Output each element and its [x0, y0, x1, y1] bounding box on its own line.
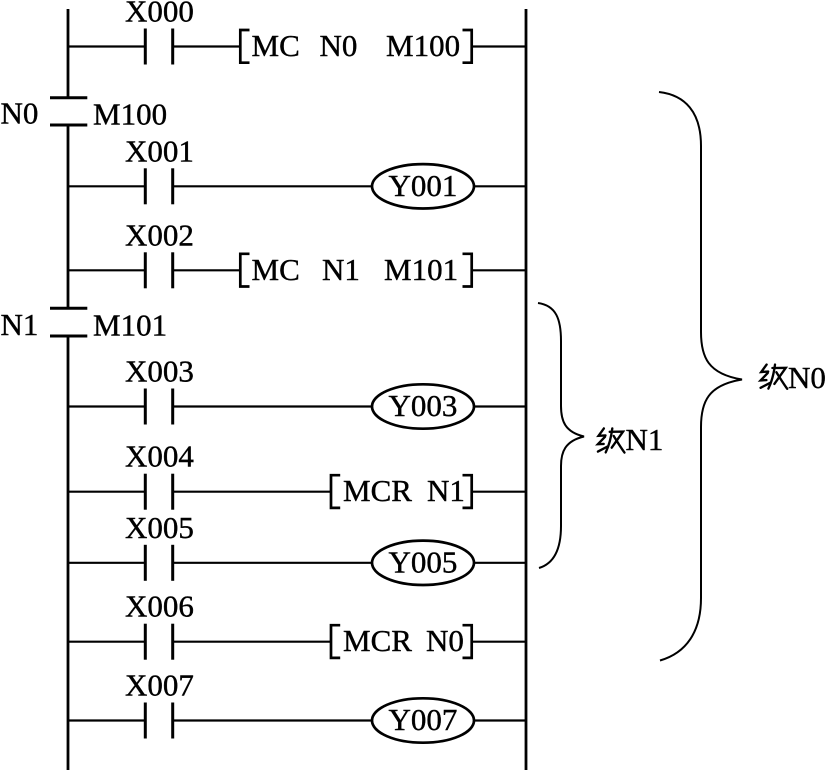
contact X005 — [145, 545, 172, 581]
wire rung7 right — [472, 641, 526, 643]
svg-text:Y007: Y007 — [389, 702, 458, 737]
wire rung6 right — [474, 562, 526, 564]
svg-text:N1: N1 — [1, 307, 39, 342]
instruction MC N0 M100 open bracket — [240, 30, 249, 63]
wire rung1 right — [472, 45, 526, 47]
label 级N1 glyph 级 — [598, 428, 625, 452]
svg-text:N0: N0 — [788, 360, 826, 395]
instruction MCR N1 close bracket — [463, 475, 472, 508]
svg-text:X003: X003 — [125, 354, 194, 389]
svg-text:MCR: MCR — [343, 473, 412, 508]
wire rung1 mid — [174, 45, 239, 47]
MC contact N1 bar top — [50, 307, 87, 310]
svg-text:X006: X006 — [125, 589, 194, 624]
svg-text:N0: N0 — [426, 623, 464, 658]
wire rung6 left — [68, 562, 144, 564]
wire rung5 left — [68, 491, 144, 493]
wire rung3 mid — [174, 269, 239, 271]
svg-text:X001: X001 — [125, 133, 194, 168]
coil Y001 ellipse — [372, 164, 474, 208]
contact X000 — [145, 29, 172, 65]
svg-text:X005: X005 — [125, 510, 194, 545]
wire rung7 left — [68, 641, 144, 643]
instruction MCR N0 close bracket — [463, 625, 472, 658]
wire rung2 left — [68, 185, 144, 187]
wire rung5 mid — [174, 491, 330, 493]
svg-text:Y003: Y003 — [389, 388, 458, 423]
contact X001 — [145, 168, 172, 204]
coil Y003 ellipse — [372, 384, 474, 428]
coil Y005 ellipse — [372, 541, 474, 585]
wire rung2 right — [474, 185, 526, 187]
svg-text:X002: X002 — [125, 217, 194, 252]
svg-text:MC: MC — [252, 252, 300, 287]
svg-text:X004: X004 — [125, 439, 194, 474]
svg-text:N1: N1 — [626, 422, 664, 457]
MC contact N0 bar top — [50, 96, 87, 99]
instruction MC N1 M101 open bracket — [240, 254, 249, 287]
brace level N1 — [538, 303, 584, 568]
wire rung8 left — [68, 719, 144, 721]
wire rung8 right — [474, 719, 526, 721]
wire rung2 mid — [174, 185, 372, 187]
svg-text:N0: N0 — [1, 96, 39, 131]
wire rung6 mid — [174, 562, 372, 564]
wire rung7 mid — [174, 641, 330, 643]
svg-text:Y005: Y005 — [389, 545, 458, 580]
instruction MCR N1 open bracket — [331, 475, 340, 508]
label 级N0 glyph 级 — [761, 365, 788, 389]
wire rung1 left — [68, 45, 144, 47]
instruction MCR N0 open bracket — [331, 625, 340, 658]
instruction MC N1 M101 close bracket — [463, 254, 472, 287]
svg-text:MC: MC — [252, 28, 300, 63]
wire rung3 left — [68, 269, 144, 271]
svg-text:X007: X007 — [125, 668, 194, 703]
instruction MC N0 M100 close bracket — [463, 30, 472, 63]
left power rail — [67, 9, 70, 770]
wire rung4 left — [68, 405, 144, 407]
wire rung5 right — [472, 491, 526, 493]
MC contact N0 bar bottom — [50, 124, 87, 127]
contact X003 — [145, 389, 172, 425]
svg-text:M100: M100 — [93, 97, 167, 132]
brace level N0 — [659, 92, 742, 661]
svg-text:MCR: MCR — [343, 623, 412, 658]
contact X007 — [145, 703, 172, 739]
svg-text:M101: M101 — [93, 308, 167, 343]
wire rung8 mid — [174, 719, 372, 721]
svg-text:M100: M100 — [386, 28, 460, 63]
svg-text:M101: M101 — [384, 252, 458, 287]
coil Y007 ellipse — [372, 698, 474, 742]
contact X006 — [145, 624, 172, 660]
contact X004 — [145, 474, 172, 510]
wire rung4 right — [474, 405, 526, 407]
right power rail — [525, 9, 528, 770]
contact X002 — [145, 252, 172, 288]
svg-text:N0: N0 — [320, 28, 358, 63]
MC contact N1 bar bottom — [50, 335, 87, 338]
svg-text:Y001: Y001 — [389, 168, 458, 203]
svg-text:X000: X000 — [125, 0, 194, 29]
svg-text:N1: N1 — [322, 252, 360, 287]
wire rung4 mid — [174, 405, 372, 407]
svg-text:N1: N1 — [427, 473, 465, 508]
wire rung3 right — [472, 269, 526, 271]
